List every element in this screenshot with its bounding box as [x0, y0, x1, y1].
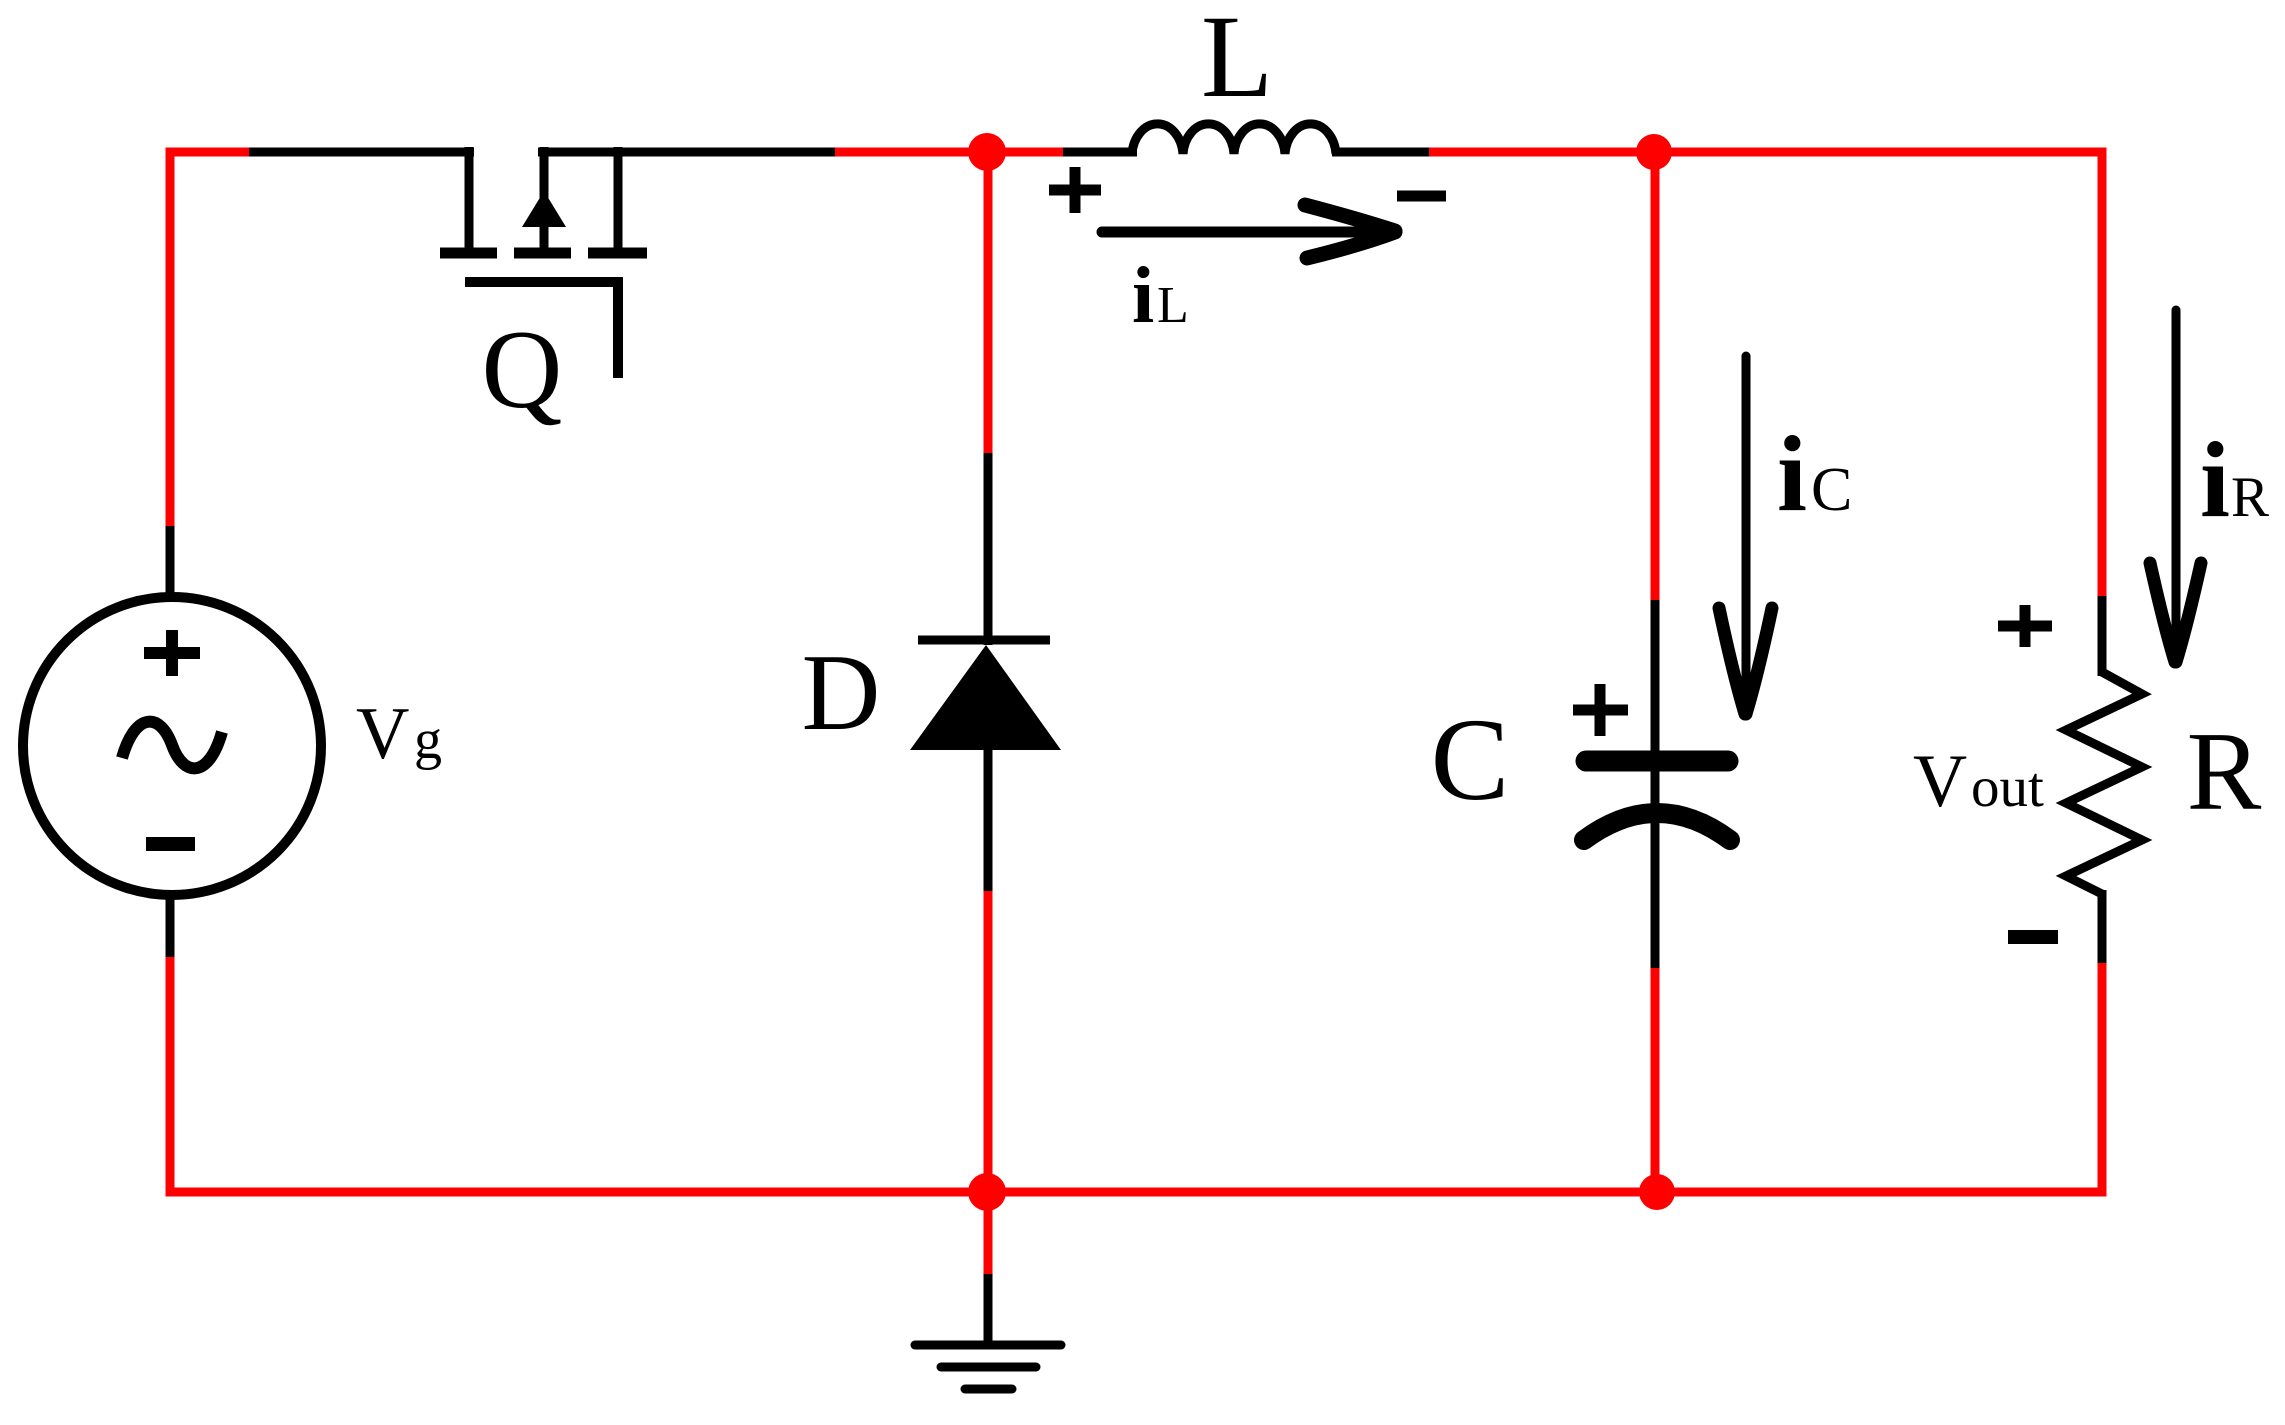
node bottom junction at ground	[968, 1173, 1006, 1211]
svg-text:C: C	[1431, 694, 1510, 825]
svg-text:Q: Q	[482, 308, 563, 432]
wire diode branch black above D	[984, 453, 993, 645]
arrow iC	[1719, 356, 1772, 714]
svg-text:R: R	[2187, 710, 2262, 834]
wire left rail black below source	[166, 890, 175, 957]
wire left rail black above source	[166, 526, 175, 602]
label minus right of inductor	[1397, 191, 1446, 202]
wire top black segment left of Q	[249, 148, 474, 157]
wire ground stem red	[984, 1192, 993, 1274]
svg-text:C: C	[1811, 456, 1852, 524]
voltage source Vg	[23, 597, 321, 895]
node bottom junction at capacitor	[1639, 1174, 1675, 1210]
svg-text:V: V	[356, 693, 409, 775]
svg-text:R: R	[2231, 466, 2269, 529]
wire diode branch red bottom	[984, 891, 993, 1192]
svg-text:g: g	[414, 709, 442, 771]
svg-text:L: L	[1201, 0, 1273, 122]
inductor L	[1132, 124, 1336, 154]
label minus bottom of R branch	[2008, 930, 2058, 944]
wire top-left red corner segment	[170, 152, 249, 526]
diode D	[910, 640, 1061, 750]
capacitor C	[1584, 761, 1730, 840]
label plus above capacitor	[1573, 684, 1628, 736]
wire top black segment right of Q	[538, 148, 835, 157]
arrow iL	[1102, 205, 1395, 258]
wire capacitor branch black	[1651, 600, 1660, 968]
wire top right red segment with right riser	[1429, 152, 2102, 596]
svg-text:i: i	[1777, 415, 1807, 534]
wire right rail black below R	[2098, 890, 2107, 963]
node B top junction at capacitor	[1636, 134, 1672, 170]
label plus left of inductor	[1049, 167, 1101, 213]
arrow iR	[2150, 310, 2201, 662]
svg-text:i: i	[2200, 421, 2230, 540]
wire right rail black above R	[2098, 596, 2107, 676]
wire inductor right lead black	[1332, 148, 1429, 157]
wire capacitor branch red top	[1651, 147, 1660, 600]
wire diode branch black below D	[984, 749, 993, 891]
wire ground stem black	[984, 1274, 993, 1345]
svg-text:i: i	[1132, 252, 1154, 340]
transistor Q	[440, 147, 647, 378]
svg-text:D: D	[802, 632, 881, 753]
wire capacitor branch red bottom	[1651, 968, 1660, 1192]
wire top middle red segment	[835, 148, 1063, 157]
svg-text:V: V	[1913, 740, 1967, 823]
resistor R	[2066, 672, 2142, 894]
svg-text:out: out	[1971, 756, 2044, 819]
node A top junction at diode	[968, 133, 1006, 171]
ground	[915, 1345, 1061, 1389]
wire diode branch red top	[984, 147, 993, 453]
label plus top of R branch	[1998, 605, 2052, 647]
svg-text:L: L	[1157, 277, 1189, 334]
wire inductor left lead black	[1063, 148, 1137, 157]
wire bottom rail red with left and right risers	[170, 957, 2102, 1192]
